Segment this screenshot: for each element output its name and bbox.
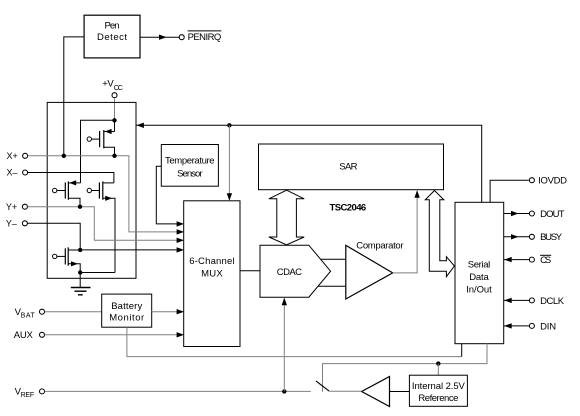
svg-text:+V: +V [102,79,114,90]
svg-text:Sensor: Sensor [177,168,202,179]
wire Y+ to MUX [28,207,185,243]
svg-text:Y+: Y+ [6,202,17,212]
svg-text:Battery: Battery [111,301,142,312]
pin DOUT [504,209,565,220]
arrow SAR-Serial bidirectional [425,191,454,277]
node Y- Q4 junction [78,248,82,252]
svg-text:CDAC: CDAC [277,267,302,278]
block Battery Monitor [102,294,152,327]
svg-text:REF: REF [21,392,34,399]
transistor Q1 [87,129,114,156]
svg-text:Temperature: Temperature [165,155,215,166]
node X+ pen junction [62,154,66,158]
wire VCC junction to Q2 drain [81,120,115,183]
svg-text:MUX: MUX [201,269,223,280]
op-amp Comparator [346,241,404,300]
svg-text:AUX: AUX [14,330,34,341]
pin VREF [15,387,45,400]
ground [71,273,91,295]
svg-text:BAT: BAT [21,312,36,319]
block Serial Data In/Out [455,202,504,343]
node VREF junction [282,389,286,393]
wire buffer to switch [329,390,362,392]
block Pen Detect [84,15,140,58]
wire VREF to CDAC [282,298,287,392]
svg-text:X+: X+ [7,151,18,161]
wire Battery Monitor to MUX [152,309,184,314]
switch box [47,102,136,278]
wire Serial block to reference switch [323,344,488,392]
block 6-Channel MUX [184,201,240,347]
svg-text:6-Channel: 6-Channel [189,256,234,267]
svg-text:Detect: Detect [97,32,127,43]
pin +VCC [102,79,123,98]
pin DCLK [504,296,565,307]
svg-text:DIN: DIN [540,321,556,332]
wire Y- to Q4 drain and MUX [28,223,185,252]
block Temperature Sensor [161,145,218,187]
node X+ Q1 junction [112,154,116,158]
svg-text:SAR: SAR [339,161,357,172]
wire VCC junction to Q1 drain [114,120,116,131]
node Q4 source junction [78,270,82,274]
pin DIN [504,321,557,332]
svg-text:CS: CS [540,255,551,266]
wire X- to Q3 drain [28,173,114,183]
wire feedback to MUX top [227,125,232,201]
transistor Q2 [53,180,81,206]
svg-text:X–: X– [7,168,18,178]
pin Y+ [6,202,28,212]
node feedback junction [227,123,231,127]
svg-text:In/Out: In/Out [466,285,492,296]
wire +VCC down to junction [114,98,116,120]
svg-text:Monitor: Monitor [109,312,144,323]
wire Temperature Sensor to MUX [156,166,184,226]
svg-text:DOUT: DOUT [540,209,565,220]
pin PENIRQ [179,31,221,43]
svg-text:TSC2046: TSC2046 [330,203,367,214]
pin IOVDD [490,175,567,202]
pin CS [504,255,552,266]
wire Q3 source to Q4 source [80,272,115,274]
switch reference enable [316,381,329,391]
node VCC junction [112,118,116,122]
svg-text:Y–: Y– [6,218,17,228]
pin AUX [14,330,45,341]
wire junction to reference box [437,364,439,376]
svg-text:Internal 2.5V: Internal 2.5V [412,381,466,392]
node Y+ Q2 junction [78,205,82,209]
pin VBAT [15,307,45,320]
wire serial control feedback [136,123,481,203]
block Internal 2.5V Reference [409,375,467,406]
wire Battery Monitor to Serial block bottom [127,327,462,356]
wire Comparator output to SAR [393,190,420,273]
wire MUX to CDAC [240,270,260,272]
op-amp reference buffer [362,377,390,407]
arrow SAR-CDAC bidirectional [269,190,304,245]
svg-text:CC: CC [114,85,123,92]
wire CDAC to Comparator lower [318,285,346,287]
svg-text:BUSY: BUSY [540,232,563,243]
wire CDAC to Comparator upper [321,258,346,260]
svg-text:DCLK: DCLK [540,296,565,307]
pin Y- [6,218,28,228]
svg-text:Pen: Pen [105,21,120,32]
transistor Q3 [87,181,115,272]
svg-text:Reference: Reference [418,393,458,404]
transistor Q4 [53,247,81,272]
svg-text:Comparator: Comparator [356,241,403,252]
wire VREF line [45,390,311,392]
svg-text:Data: Data [469,272,489,283]
svg-text:IOVDD: IOVDD [538,175,567,186]
svg-text:Serial: Serial [468,260,491,271]
wire X+ to MUX [28,156,184,235]
wire Pen Detect to X+ node [64,37,84,156]
block SAR [259,144,444,190]
wire VBAT to Battery Monitor [45,311,102,313]
pin BUSY [504,232,563,243]
block CDAC [260,245,331,297]
svg-text:PENIRQ: PENIRQ [188,32,222,43]
wire PENIRQ output [140,35,179,40]
node reference junction [436,361,440,365]
pin X+ [7,151,28,161]
wire AUX to MUX [45,332,184,337]
wire reference box to buffer [390,391,410,393]
pin X- [7,168,28,178]
